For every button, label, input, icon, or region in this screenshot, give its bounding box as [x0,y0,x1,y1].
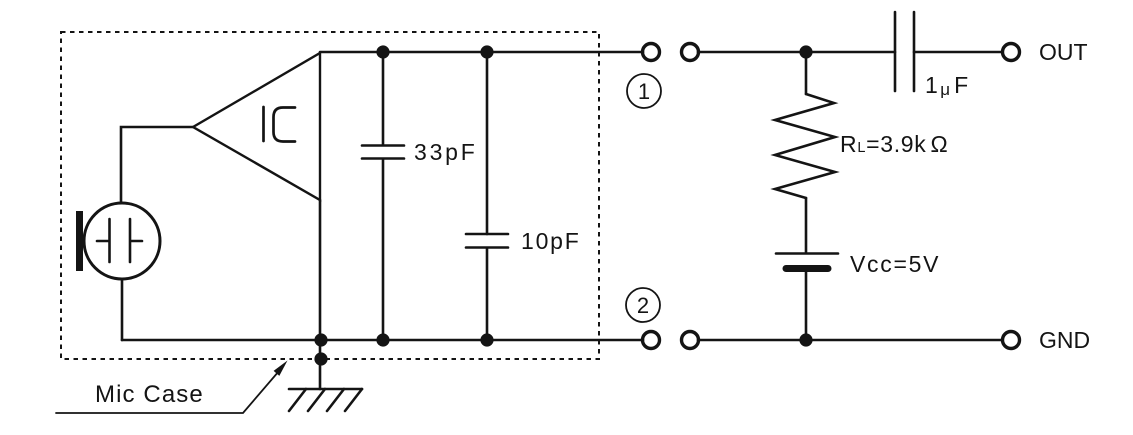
node OUT terminal [1003,44,1020,61]
capacitor C2 10pF [466,52,508,340]
terminal 1 (circuit side) [682,44,699,61]
terminal 2 (circuit side) [682,332,699,349]
capacitor C1 33pF [362,52,404,340]
wire (1uF to OUT terminal) [914,51,1002,54]
svg-text:Vcc=5V: Vcc=5V [850,251,940,277]
pin label 1 [627,74,661,108]
svg-text:33pF: 33pF [414,139,478,165]
wire (top output bus) [320,51,643,54]
label IC [264,107,296,142]
svg-text:1: 1 [638,79,650,104]
wire (amplifier output / right edge down to ground bus and case ground) [319,200,322,389]
wire (mic to amplifier input) [121,127,193,203]
svg-text:10pF: 10pF [521,228,581,254]
svg-text:2: 2 [637,293,649,318]
pin label 2 [626,288,660,322]
junction (RL top) [799,45,812,58]
junction (battery bottom to ground bus) [799,333,812,346]
capacitor C3 1uF [895,12,914,91]
battery Vcc [776,254,838,341]
svg-text:1μF: 1μF [925,72,968,99]
wire (terminal 1 to output node) [698,51,895,54]
wire (ground bus, terminal 2 to GND) [698,339,1002,342]
wire (ground bus inside case) [122,339,643,342]
node GND terminal [1003,332,1020,349]
junction (10pF top) [480,45,493,58]
resistor RL [775,52,835,252]
ground (case ground symbol) [289,389,362,411]
junction (case connection on dashed enclosure) [314,352,327,365]
junction (amp output to ground bus) [314,333,327,346]
wire (mic bottom to ground bus) [121,279,124,340]
junction (33pF top) [376,45,389,58]
leader line (Mic Case callout with arrow) [56,361,288,414]
svg-text:OUT: OUT [1039,39,1088,65]
svg-text:RL=3.9kΩ: RL=3.9kΩ [840,131,948,157]
terminal 2 (mic side) [643,332,660,349]
svg-text:Mic Case: Mic Case [95,381,204,408]
svg-text:GND: GND [1039,327,1090,353]
op-amp U1 (IC amplifier triangle) [193,53,320,200]
terminal 1 (mic side) [643,44,660,61]
electret microphone element [76,203,160,279]
junction (10pF bottom) [480,333,493,346]
junction (33pF bottom) [376,333,389,346]
mic case enclosure (dashed box) [61,32,599,359]
